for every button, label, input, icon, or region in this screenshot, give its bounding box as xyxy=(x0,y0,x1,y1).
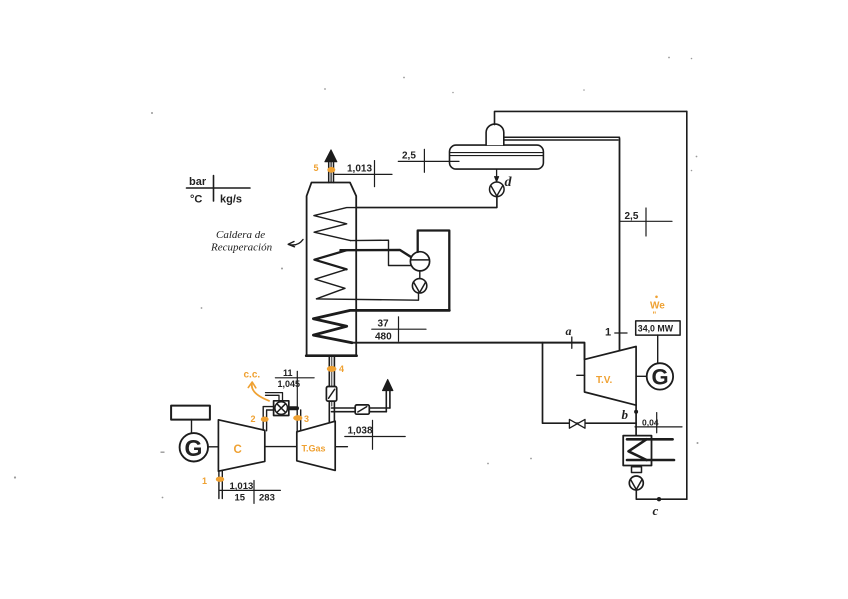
dim 2,5 (deaerator) xyxy=(398,149,459,172)
svg-text:a: a xyxy=(566,324,572,338)
bypass branch duct xyxy=(332,407,390,409)
condenser xyxy=(623,436,651,466)
damper / flowmeter 2 xyxy=(355,405,369,414)
steam drum xyxy=(410,252,429,271)
T.V. left shaft stub xyxy=(577,374,585,376)
economizer coil (zigzag 1) xyxy=(314,196,497,240)
dim 0,04 xyxy=(635,413,682,433)
We annotation (orange) xyxy=(650,296,665,320)
pipe compressor to c.c. xyxy=(263,407,273,431)
svg-text:2: 2 xyxy=(251,414,256,424)
svg-text:C: C xyxy=(234,444,242,456)
svg-text:283: 283 xyxy=(259,493,275,504)
svg-text:11: 11 xyxy=(283,368,293,378)
arrow to boiler xyxy=(289,240,303,245)
svg-text:c.c.: c.c. xyxy=(244,370,261,381)
svg-text:G: G xyxy=(185,435,203,461)
node c dot xyxy=(657,497,661,501)
exhaust line to condenser xyxy=(635,405,637,435)
dim 1,013 (stack) xyxy=(334,161,392,187)
node b xyxy=(634,410,638,414)
air inlet xyxy=(218,471,220,498)
riser to drum (thick) xyxy=(341,250,412,257)
svg-text:15: 15 xyxy=(235,493,246,504)
scan specks xyxy=(14,57,699,499)
node 1 tick xyxy=(615,332,627,334)
condenser outlet flange xyxy=(632,467,642,473)
output box 34,0 MW xyxy=(636,321,680,335)
dim 1,013 / 15 / 283 xyxy=(220,481,281,504)
circulation pump xyxy=(412,279,426,293)
deaerator tank xyxy=(450,145,544,169)
svg-text:bar: bar xyxy=(189,176,207,188)
node a tick xyxy=(571,337,573,348)
T.Gas right shaft stub xyxy=(335,446,347,448)
damper / flowmeter 1 xyxy=(326,387,336,402)
svg-text:5: 5 xyxy=(314,163,319,173)
bypass branch from a-line xyxy=(543,343,637,424)
svg-text:1: 1 xyxy=(605,327,611,339)
drum-pump stub xyxy=(419,271,421,279)
svg-text:3: 3 xyxy=(304,414,309,424)
steam supply to dome xyxy=(504,136,620,138)
svg-text:1,013: 1,013 xyxy=(347,164,372,175)
svg-text:d: d xyxy=(505,175,513,190)
dim 2,5 (turbine inlet) xyxy=(620,208,673,236)
steam line down to turbine (node 1) xyxy=(619,139,621,351)
shaft C - T.Gas xyxy=(265,446,297,448)
svg-text:kg/s: kg/s xyxy=(220,194,242,206)
svg-text:2,5: 2,5 xyxy=(625,211,639,222)
pipe c.c. to T.Gas xyxy=(289,406,297,410)
coil outlet to circulation pump xyxy=(317,293,419,300)
svg-text:2,5: 2,5 xyxy=(402,151,416,162)
steam turbine T.V. xyxy=(585,347,637,406)
steam line to node a xyxy=(352,343,585,360)
svg-text:1,045: 1,045 xyxy=(278,379,301,389)
condensate pump xyxy=(629,476,643,490)
svg-text:1,038: 1,038 xyxy=(348,426,373,437)
svg-text:b: b xyxy=(622,407,629,422)
svg-text:4: 4 xyxy=(339,364,344,374)
dim 1,038 xyxy=(345,420,405,449)
T.V. right shaft xyxy=(636,375,647,377)
valve xyxy=(569,419,577,428)
gas turbine T.Gas xyxy=(297,421,335,470)
svg-text:G: G xyxy=(652,365,669,390)
generator G (steam) xyxy=(647,363,673,389)
feed pump d xyxy=(490,182,505,197)
superheater coil (zigzag 4, thick) xyxy=(313,310,449,342)
condenser coil xyxy=(629,439,647,460)
svg-text:34,0 MW: 34,0 MW xyxy=(638,324,674,334)
condensate line to node c xyxy=(636,490,687,499)
label Caldera de Recuperacion xyxy=(210,229,273,254)
fuel inlet stub xyxy=(266,393,283,401)
vent line from dome to top header xyxy=(495,111,687,124)
economizer outlet to drum xyxy=(351,240,412,265)
compressor C xyxy=(218,420,264,471)
boiler vessel (Caldera) xyxy=(307,183,357,356)
evaporator coil (zigzag 2) xyxy=(314,250,346,269)
svg-text:480: 480 xyxy=(375,332,392,343)
condenser cooling water pipes xyxy=(627,438,673,441)
svg-text:T.Gas: T.Gas xyxy=(302,444,326,454)
exhaust duct T.Gas to boiler xyxy=(328,356,330,422)
svg-text:": " xyxy=(653,311,657,320)
svg-text:0,04: 0,04 xyxy=(642,417,659,427)
dim 11 / 1,045 xyxy=(275,371,314,408)
generator G (gas) xyxy=(180,433,208,461)
exciter box xyxy=(171,406,210,420)
combustion chamber c.c. xyxy=(274,401,289,416)
svg-text:Recuperación: Recuperación xyxy=(210,242,273,254)
bypass stack xyxy=(385,391,387,412)
dim 37/480 xyxy=(372,317,426,342)
shaft gen-compressor xyxy=(208,446,218,448)
drum recirculation loop xyxy=(418,231,450,311)
svg-text:37: 37 xyxy=(378,319,390,330)
svg-text:c: c xyxy=(653,503,659,518)
feedwater line pump d to economizer xyxy=(356,197,497,208)
legend units table xyxy=(187,176,251,202)
svg-text:1: 1 xyxy=(202,476,207,486)
deaerator dome xyxy=(486,124,504,145)
svg-text:°C: °C xyxy=(190,194,202,206)
chimney stack at boiler top xyxy=(328,162,330,183)
right border line xyxy=(686,111,688,499)
svg-text:T.V.: T.V. xyxy=(596,375,613,386)
svg-text:Caldera de: Caldera de xyxy=(216,229,265,241)
svg-text:1,013: 1,013 xyxy=(230,481,254,492)
